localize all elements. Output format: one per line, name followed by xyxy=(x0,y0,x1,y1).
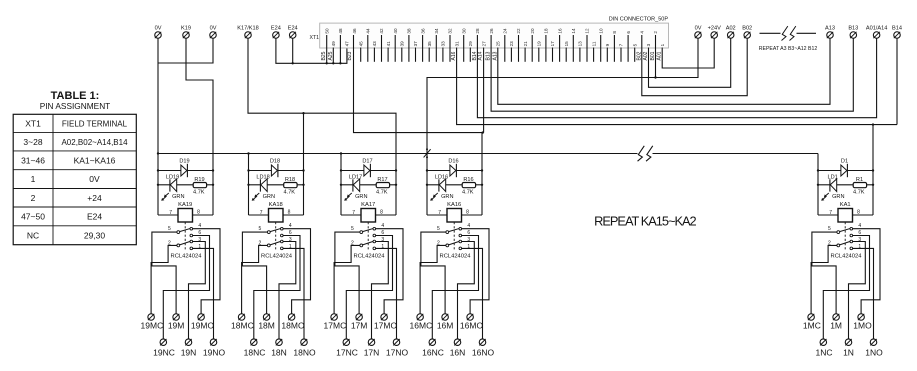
svg-text:41: 41 xyxy=(386,41,391,47)
svg-text:3: 3 xyxy=(646,43,651,46)
svg-text:29,30: 29,30 xyxy=(84,230,106,240)
svg-text:44: 44 xyxy=(366,28,371,34)
svg-text:31: 31 xyxy=(454,41,459,47)
svg-text:17MC: 17MC xyxy=(324,320,347,330)
svg-text:E24: E24 xyxy=(271,26,281,32)
svg-text:1: 1 xyxy=(289,244,292,250)
svg-text:4: 4 xyxy=(858,223,861,229)
svg-text:18MC: 18MC xyxy=(231,320,254,330)
svg-text:4.7K: 4.7K xyxy=(462,190,474,196)
svg-text:B02: B02 xyxy=(636,51,642,60)
svg-text:17N: 17N xyxy=(364,347,380,357)
svg-text:6: 6 xyxy=(467,230,470,236)
svg-text:17: 17 xyxy=(550,41,555,47)
svg-text:B13: B13 xyxy=(486,51,492,60)
svg-text:LD1: LD1 xyxy=(827,174,837,180)
svg-text:E24: E24 xyxy=(87,211,102,221)
svg-text:39: 39 xyxy=(400,41,405,47)
svg-text:FIELD TERMINAL: FIELD TERMINAL xyxy=(62,119,128,128)
svg-text:4.7K: 4.7K xyxy=(284,190,296,196)
svg-text:0V: 0V xyxy=(155,26,162,32)
svg-text:7: 7 xyxy=(438,210,441,216)
svg-text:5: 5 xyxy=(437,226,440,232)
svg-text:16MO: 16MO xyxy=(460,320,484,330)
svg-text:7: 7 xyxy=(169,210,172,216)
svg-text:0V: 0V xyxy=(210,26,217,32)
svg-text:8: 8 xyxy=(612,31,617,34)
svg-text:11: 11 xyxy=(591,41,596,46)
svg-text:A13: A13 xyxy=(492,51,498,60)
svg-text:3: 3 xyxy=(289,237,292,243)
svg-text:17M: 17M xyxy=(351,320,368,330)
svg-text:16: 16 xyxy=(557,28,562,34)
svg-text:D18: D18 xyxy=(270,159,280,165)
svg-text:45: 45 xyxy=(358,41,363,47)
svg-text:25: 25 xyxy=(495,41,500,47)
svg-text:B02: B02 xyxy=(742,26,752,32)
svg-text:37: 37 xyxy=(413,41,418,47)
svg-text:REPEAT KA15~KA2: REPEAT KA15~KA2 xyxy=(594,214,696,229)
svg-text:48: 48 xyxy=(338,28,343,34)
svg-text:R17: R17 xyxy=(377,177,387,183)
svg-text:1: 1 xyxy=(660,43,665,46)
svg-text:RCL424024: RCL424024 xyxy=(831,254,863,260)
svg-text:18NC: 18NC xyxy=(244,347,266,357)
svg-text:1MO: 1MO xyxy=(853,320,872,330)
svg-text:26: 26 xyxy=(489,28,494,34)
svg-text:B25: B25 xyxy=(321,51,327,60)
svg-text:1: 1 xyxy=(858,244,861,250)
svg-text:20: 20 xyxy=(530,28,535,34)
svg-text:K19: K19 xyxy=(181,26,191,32)
svg-text:8: 8 xyxy=(288,210,291,216)
svg-text:KA1: KA1 xyxy=(840,202,851,208)
svg-text:R16: R16 xyxy=(463,177,473,183)
svg-text:1NO: 1NO xyxy=(865,347,883,357)
svg-text:2: 2 xyxy=(31,193,36,203)
svg-text:GRN: GRN xyxy=(832,194,844,200)
svg-text:1NC: 1NC xyxy=(815,347,832,357)
svg-text:2: 2 xyxy=(653,31,658,34)
svg-text:18MO: 18MO xyxy=(281,320,305,330)
svg-text:13: 13 xyxy=(578,41,583,47)
svg-text:40: 40 xyxy=(393,28,398,34)
svg-text:1N: 1N xyxy=(843,347,854,357)
svg-text:RCL424024: RCL424024 xyxy=(440,254,472,260)
svg-text:2: 2 xyxy=(168,240,171,246)
svg-text:17NC: 17NC xyxy=(336,347,358,357)
svg-text:23: 23 xyxy=(509,41,514,47)
svg-text:6: 6 xyxy=(381,230,384,236)
svg-text:50: 50 xyxy=(324,28,329,34)
svg-text:4: 4 xyxy=(289,223,292,229)
svg-text:4.7K: 4.7K xyxy=(193,190,205,196)
svg-text:46: 46 xyxy=(352,28,357,34)
svg-text:GRN: GRN xyxy=(441,194,453,200)
svg-text:21: 21 xyxy=(523,41,528,47)
svg-text:A16: A16 xyxy=(451,51,457,60)
svg-text:NC: NC xyxy=(27,230,39,240)
svg-text:RCL424024: RCL424024 xyxy=(261,254,293,260)
svg-text:1M: 1M xyxy=(830,320,842,330)
svg-text:LD18: LD18 xyxy=(256,174,269,180)
svg-text:8: 8 xyxy=(466,210,469,216)
svg-text:42: 42 xyxy=(379,28,384,34)
svg-text:A01/A14: A01/A14 xyxy=(866,26,887,32)
svg-text:0V: 0V xyxy=(695,26,702,32)
svg-text:B14: B14 xyxy=(892,26,902,32)
svg-text:5: 5 xyxy=(259,226,262,232)
svg-text:19N: 19N xyxy=(181,347,197,357)
svg-text:1: 1 xyxy=(31,174,36,184)
svg-text:D16: D16 xyxy=(448,159,458,165)
svg-text:17NO: 17NO xyxy=(386,347,409,357)
svg-text:A01: A01 xyxy=(657,51,663,60)
svg-text:D1: D1 xyxy=(841,159,848,165)
svg-text:10: 10 xyxy=(598,28,603,34)
svg-text:A14: A14 xyxy=(478,51,484,60)
svg-text:32: 32 xyxy=(448,28,453,34)
svg-text:LD17: LD17 xyxy=(349,174,362,180)
svg-text:18N: 18N xyxy=(271,347,287,357)
svg-text:6: 6 xyxy=(626,31,631,34)
svg-text:GRN: GRN xyxy=(172,194,184,200)
svg-text:19NO: 19NO xyxy=(203,347,226,357)
svg-text:+24: +24 xyxy=(87,193,102,203)
svg-text:43: 43 xyxy=(372,41,377,47)
svg-text:8: 8 xyxy=(380,210,383,216)
svg-text:A02: A02 xyxy=(643,51,649,60)
svg-text:1: 1 xyxy=(198,244,201,250)
svg-text:4: 4 xyxy=(467,223,470,229)
svg-text:16NC: 16NC xyxy=(422,347,444,357)
svg-text:18NO: 18NO xyxy=(293,347,316,357)
svg-text:6: 6 xyxy=(198,230,201,236)
svg-text:6: 6 xyxy=(858,230,861,236)
svg-text:17MO: 17MO xyxy=(374,320,398,330)
svg-text:LD16: LD16 xyxy=(435,174,448,180)
svg-text:REPEAT A3 B3~A12 B12: REPEAT A3 B3~A12 B12 xyxy=(759,46,818,52)
svg-text:16NO: 16NO xyxy=(472,347,495,357)
svg-text:DIN CONNECTOR_50P: DIN CONNECTOR_50P xyxy=(609,17,669,23)
svg-text:A02,B02~A14,B14: A02,B02~A14,B14 xyxy=(61,138,128,147)
svg-text:7: 7 xyxy=(260,210,263,216)
svg-text:3: 3 xyxy=(467,237,470,243)
svg-text:RCL424024: RCL424024 xyxy=(354,254,386,260)
svg-text:XT1: XT1 xyxy=(25,118,41,128)
svg-text:6: 6 xyxy=(289,230,292,236)
svg-text:47~50: 47~50 xyxy=(21,211,45,221)
svg-text:1: 1 xyxy=(467,244,470,250)
svg-text:R1: R1 xyxy=(856,177,863,183)
svg-text:36: 36 xyxy=(420,28,425,34)
svg-text:LD19: LD19 xyxy=(166,174,179,180)
svg-text:4.7K: 4.7K xyxy=(853,190,865,196)
svg-text:KA18: KA18 xyxy=(269,202,283,208)
svg-text:+24V: +24V xyxy=(708,26,721,32)
svg-text:22: 22 xyxy=(516,28,521,34)
svg-text:B01: B01 xyxy=(650,51,656,60)
svg-text:E24: E24 xyxy=(288,26,298,32)
svg-text:K17/K18: K17/K18 xyxy=(237,26,258,32)
svg-text:3: 3 xyxy=(858,237,861,243)
svg-text:D19: D19 xyxy=(179,159,189,165)
svg-text:38: 38 xyxy=(407,28,412,34)
svg-text:8: 8 xyxy=(197,210,200,216)
svg-text:27: 27 xyxy=(482,41,487,47)
svg-text:18: 18 xyxy=(544,28,549,34)
svg-text:GRN: GRN xyxy=(263,194,275,200)
svg-text:2: 2 xyxy=(828,240,831,246)
svg-text:47: 47 xyxy=(345,41,350,47)
svg-text:33: 33 xyxy=(441,41,446,47)
svg-text:16N: 16N xyxy=(450,347,466,357)
svg-text:R19: R19 xyxy=(194,177,204,183)
svg-text:1MC: 1MC xyxy=(803,320,821,330)
svg-text:7: 7 xyxy=(619,43,624,46)
svg-text:KA19: KA19 xyxy=(178,202,192,208)
svg-text:49: 49 xyxy=(331,41,336,47)
svg-text:19: 19 xyxy=(537,41,542,47)
svg-text:19M: 19M xyxy=(168,320,185,330)
svg-text:R18: R18 xyxy=(285,177,295,183)
svg-text:PIN ASSIGNMENT: PIN ASSIGNMENT xyxy=(40,101,111,111)
svg-text:B23: B23 xyxy=(347,51,353,60)
svg-text:2: 2 xyxy=(351,240,354,246)
svg-text:4: 4 xyxy=(198,223,201,229)
svg-text:34: 34 xyxy=(434,28,439,34)
svg-text:12: 12 xyxy=(585,28,590,34)
svg-text:D17: D17 xyxy=(362,159,372,165)
svg-text:4: 4 xyxy=(640,31,645,34)
svg-text:3: 3 xyxy=(381,237,384,243)
svg-text:2: 2 xyxy=(437,240,440,246)
svg-text:7: 7 xyxy=(352,210,355,216)
svg-text:19NC: 19NC xyxy=(153,347,175,357)
svg-text:5: 5 xyxy=(828,226,831,232)
svg-text:KA1~KA16: KA1~KA16 xyxy=(74,155,116,165)
svg-text:A13: A13 xyxy=(825,26,835,32)
svg-text:4: 4 xyxy=(381,223,384,229)
svg-text:5: 5 xyxy=(632,43,637,46)
svg-text:KA16: KA16 xyxy=(447,202,461,208)
svg-text:3~28: 3~28 xyxy=(23,137,42,147)
svg-text:28: 28 xyxy=(475,28,480,34)
svg-text:XT1: XT1 xyxy=(309,35,319,41)
svg-text:31~46: 31~46 xyxy=(21,155,45,165)
svg-text:GRN: GRN xyxy=(355,194,367,200)
svg-text:9: 9 xyxy=(605,43,610,46)
svg-text:24: 24 xyxy=(503,28,508,34)
svg-text:5: 5 xyxy=(351,226,354,232)
svg-text:8: 8 xyxy=(857,210,860,216)
svg-text:B13: B13 xyxy=(848,26,858,32)
svg-text:29: 29 xyxy=(468,41,473,47)
svg-text:16M: 16M xyxy=(437,320,454,330)
svg-text:30: 30 xyxy=(461,28,466,34)
svg-text:35: 35 xyxy=(427,41,432,47)
svg-text:KA17: KA17 xyxy=(361,202,375,208)
svg-text:2: 2 xyxy=(259,240,262,246)
svg-text:18M: 18M xyxy=(258,320,275,330)
svg-text:15: 15 xyxy=(564,41,569,47)
svg-text:1: 1 xyxy=(381,244,384,250)
svg-text:5: 5 xyxy=(168,226,171,232)
svg-text:0V: 0V xyxy=(89,174,100,184)
svg-text:3: 3 xyxy=(198,237,201,243)
svg-text:4.7K: 4.7K xyxy=(376,190,388,196)
svg-text:RCL424024: RCL424024 xyxy=(171,254,203,260)
svg-text:7: 7 xyxy=(829,210,832,216)
svg-text:19MO: 19MO xyxy=(191,320,215,330)
svg-text:A25: A25 xyxy=(328,51,334,60)
svg-text:A02: A02 xyxy=(726,26,736,32)
svg-text:19MC: 19MC xyxy=(141,320,164,330)
svg-text:14: 14 xyxy=(571,28,576,34)
svg-text:16MC: 16MC xyxy=(410,320,433,330)
